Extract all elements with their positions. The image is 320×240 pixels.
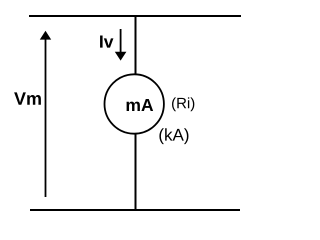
label (Ri) internal resistance	[172, 97, 194, 111]
wire: bottom bus	[30, 209, 240, 211]
wire: top bus	[29, 15, 241, 17]
label Iv	[100, 36, 113, 48]
label (kA)	[159, 128, 188, 144]
arrow Vm voltage	[40, 31, 51, 197]
ammeter U1 circle	[105, 74, 164, 133]
label Vm	[14, 92, 41, 104]
ammeter label mA	[127, 99, 154, 111]
wire: ammeter branch	[135, 16, 137, 210]
arrow Iv current	[115, 29, 127, 61]
